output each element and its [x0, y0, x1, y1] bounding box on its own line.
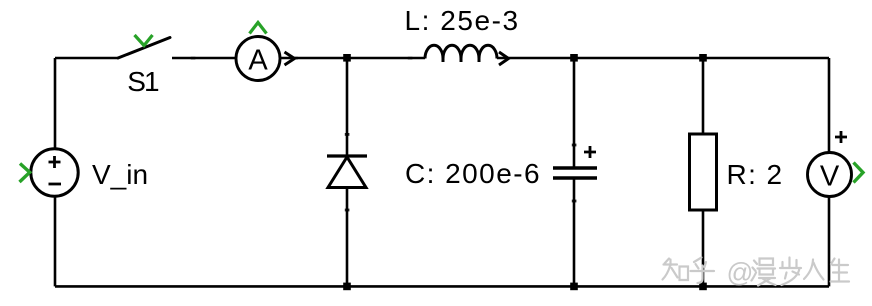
wire inductor-to-topright corner: [497, 57, 829, 60]
wire capacitor branch upper: [573, 58, 576, 168]
watermark char hu: [691, 258, 715, 284]
wire right vertical upper: [828, 58, 831, 153]
diode D1: [327, 156, 367, 188]
pin tick diode bottom: [345, 209, 350, 212]
svg-text:C: 200e-6: C: 200e-6: [405, 158, 541, 189]
svg-text:V: V: [820, 161, 840, 193]
voltmeter U-V: [808, 131, 864, 197]
junction node top diode: [343, 54, 351, 62]
wire left vertical lower: [54, 197, 57, 286]
wire capacitor branch lower: [573, 178, 576, 286]
pin tick inductor left: [408, 57, 413, 60]
watermark char bu: [780, 258, 801, 286]
wire resistor branch upper: [702, 58, 705, 134]
pin tick switch right: [191, 57, 196, 60]
capacitor C1: [405, 146, 597, 189]
wire diode branch lower: [346, 188, 349, 286]
wire bottom: [55, 285, 829, 288]
watermark char zhi: [663, 259, 678, 280]
junction node bottom resistor: [699, 283, 707, 291]
svg-text:V_in: V_in: [92, 159, 148, 190]
junction node top resistor: [699, 54, 707, 62]
junction node bottom capacitor: [570, 283, 578, 291]
svg-text:S1: S1: [127, 66, 159, 97]
voltage source V_in: [20, 149, 149, 196]
watermark zhihu: [663, 258, 850, 288]
switch S1: [118, 35, 170, 97]
pin tick capacitor top: [572, 144, 577, 147]
watermark char sheng: [831, 259, 850, 282]
wire top-left segment: [55, 57, 118, 60]
wire resistor branch lower: [702, 210, 705, 286]
svg-text:@: @: [727, 258, 754, 288]
wire left vertical upper: [54, 58, 57, 148]
wire ammeter-to-inductor: [280, 57, 425, 60]
resistor R1: [690, 134, 784, 210]
wire right vertical lower: [828, 196, 831, 286]
wire diode branch upper: [346, 58, 349, 156]
svg-text:R: 2: R: 2: [727, 159, 784, 190]
junction node top capacitor: [570, 54, 578, 62]
inductor L1: [405, 5, 520, 65]
watermark char man: [752, 259, 776, 286]
junction node bottom diode: [343, 283, 351, 291]
pin tick diode top: [345, 133, 350, 136]
svg-text:A: A: [248, 45, 268, 77]
watermark char ren: [804, 260, 824, 280]
ammeter U-A: [236, 23, 295, 81]
wire switch-to-ammeter: [172, 57, 236, 60]
svg-text:L: 25e-3: L: 25e-3: [405, 5, 520, 36]
pin tick ammeter right: [293, 57, 298, 60]
pin tick capacitor bottom: [572, 200, 577, 203]
